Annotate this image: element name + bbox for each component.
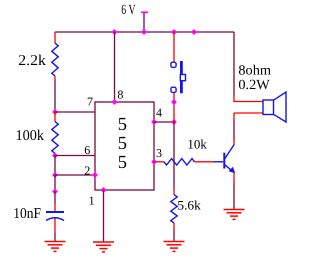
speaker LS1 [263, 92, 286, 122]
pin 1 node [101, 188, 106, 193]
pin 8 node [112, 100, 117, 105]
svg-text:0.2W: 0.2W [238, 78, 270, 93]
svg-text:6 V: 6 V [121, 3, 135, 18]
wire: capacitor to ground [54, 233, 56, 242]
svg-text:8: 8 [117, 88, 123, 102]
wire: speaker bottom to collector [233, 113, 235, 120]
ground (capacitor) [45, 242, 66, 252]
op-amp U1 555 timer box [95, 102, 154, 190]
node: pin4/button junction [172, 120, 177, 125]
ground (emitter) [224, 210, 245, 220]
pin 2 node [93, 173, 98, 178]
wire: R1 bottom to node [54, 80, 56, 113]
wire: node to pin 7 [55, 111, 95, 113]
wire: bus right rail down to speaker [233, 32, 235, 96]
label 555 [118, 115, 127, 173]
wire: node to pin 2 [55, 174, 95, 176]
wire: pin4 junction down to R4 (crosses pin3 wire) [173, 122, 175, 189]
ground (pin 1) [93, 242, 114, 252]
svg-text:5: 5 [118, 153, 127, 173]
svg-text:2.2k: 2.2k [18, 53, 46, 69]
node: junction pin6 [53, 153, 58, 158]
svg-text:3: 3 [156, 146, 162, 160]
node: junction pin2 [53, 173, 58, 178]
svg-text:5: 5 [118, 134, 127, 154]
ground (R4) [164, 242, 185, 252]
wire: speaker top lead [234, 101, 263, 103]
svg-text:5: 5 [118, 115, 127, 135]
resistor R1 2.2k [52, 32, 58, 80]
wire: +6V top supply bus [55, 31, 234, 33]
resistor R4 5.6k [171, 189, 177, 229]
transistor Q1 [214, 139, 236, 183]
node: bus junction button [172, 30, 177, 35]
svg-text:7: 7 [87, 94, 93, 108]
wire: pin 1 to ground [103, 190, 105, 242]
svg-text:10k: 10k [187, 137, 207, 152]
wire: R4 to ground [173, 229, 175, 242]
pin 8 wire from bus [114, 32, 116, 102]
wire: speaker bottom lead [234, 112, 263, 114]
svg-text:4: 4 [156, 106, 162, 120]
svg-text:100k: 100k [16, 128, 45, 144]
node: bus junction supply [142, 30, 147, 35]
wire: rail pin2 down to capacitor [54, 175, 56, 192]
node: bus junction right [192, 30, 197, 35]
svg-text:6: 6 [84, 143, 90, 157]
wire: rail pin6 to pin2 [54, 156, 56, 176]
wire: pin 4 to button column [154, 121, 174, 123]
node: button wire join [172, 100, 177, 105]
node: junction pin7 [53, 110, 58, 115]
svg-text:5.6k: 5.6k [177, 198, 201, 213]
resistor R2 100k [52, 112, 58, 156]
pin 3 node [152, 159, 157, 164]
push button S1 [171, 32, 186, 122]
pin 4 node [152, 120, 157, 125]
wire: node to pin 6 [55, 155, 95, 157]
node: junction capacitor top [53, 189, 58, 194]
wire: pin 3 stub [154, 161, 164, 163]
resistor R3 10k [164, 159, 214, 165]
svg-text:2: 2 [84, 164, 90, 178]
svg-text:8ohm: 8ohm [238, 64, 271, 79]
wire: emitter to ground [233, 183, 235, 210]
capacitor C1 10nF [46, 192, 64, 234]
power terminal 6V [141, 12, 148, 32]
node: bus junction pin8 [112, 30, 117, 35]
svg-text:10nF: 10nF [13, 206, 41, 222]
svg-text:1: 1 [89, 194, 95, 208]
